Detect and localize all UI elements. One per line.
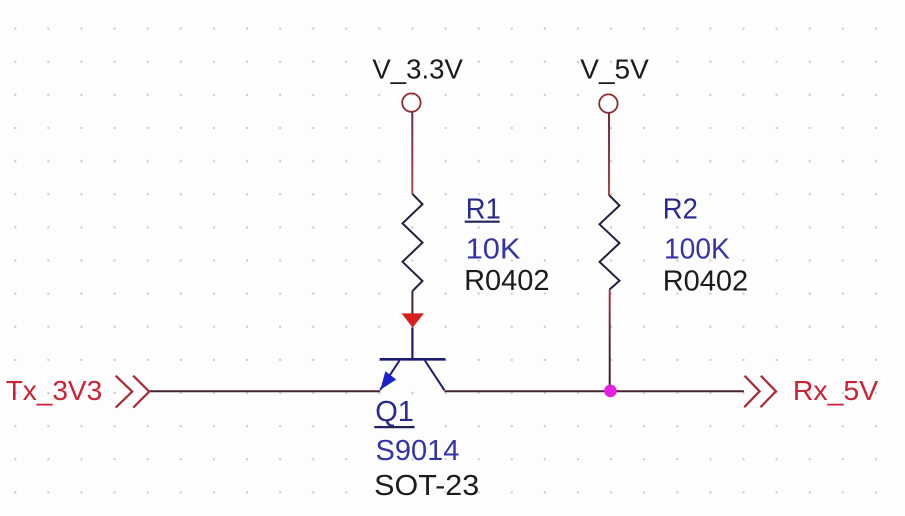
resistor R2	[600, 196, 620, 290]
wire Q1 collector to Rx	[444, 390, 744, 392]
svg-text:R0402: R0402	[464, 265, 549, 297]
svg-text:Rx_5V: Rx_5V	[793, 375, 879, 406]
port chevron Tx (inner)	[133, 376, 149, 408]
svg-text:10K: 10K	[466, 234, 521, 266]
collector lead	[425, 361, 445, 391]
base lead	[411, 328, 413, 359]
underline R1	[465, 221, 500, 223]
transistor Q1	[380, 328, 446, 391]
resistor R1	[403, 194, 423, 291]
wire V_3.3V to R1	[411, 112, 413, 194]
svg-text:R0402: R0402	[663, 265, 748, 297]
power terminal circle V_3.3V	[402, 93, 420, 111]
svg-text:Q1: Q1	[375, 396, 414, 428]
base bar	[380, 358, 446, 361]
wire Tx to Q1 emitter	[149, 390, 380, 392]
svg-text:R1: R1	[466, 193, 501, 225]
emitter lead	[380, 361, 399, 390]
svg-text:V_5V: V_5V	[580, 54, 649, 85]
svg-text:100K: 100K	[664, 234, 730, 266]
underline Q1	[374, 426, 414, 428]
svg-text:R2: R2	[663, 194, 698, 226]
red arrow into base	[402, 313, 424, 327]
port chevron Rx (outer)	[744, 376, 759, 407]
junction node	[604, 385, 617, 398]
emitter arrow	[380, 371, 396, 390]
port chevron Rx (inner)	[761, 376, 776, 407]
svg-text:V_3.3V: V_3.3V	[372, 54, 463, 85]
port chevron Tx (outer)	[116, 376, 133, 408]
svg-text:Tx_3V3: Tx_3V3	[6, 375, 103, 406]
power terminal circle V_5V	[599, 94, 617, 112]
wire R2 to junction	[609, 290, 611, 391]
wire R1 to arrow	[411, 291, 413, 314]
svg-text:SOT-23: SOT-23	[374, 470, 479, 502]
svg-text:S9014: S9014	[376, 435, 460, 467]
wire V_5V to R2	[608, 113, 610, 196]
